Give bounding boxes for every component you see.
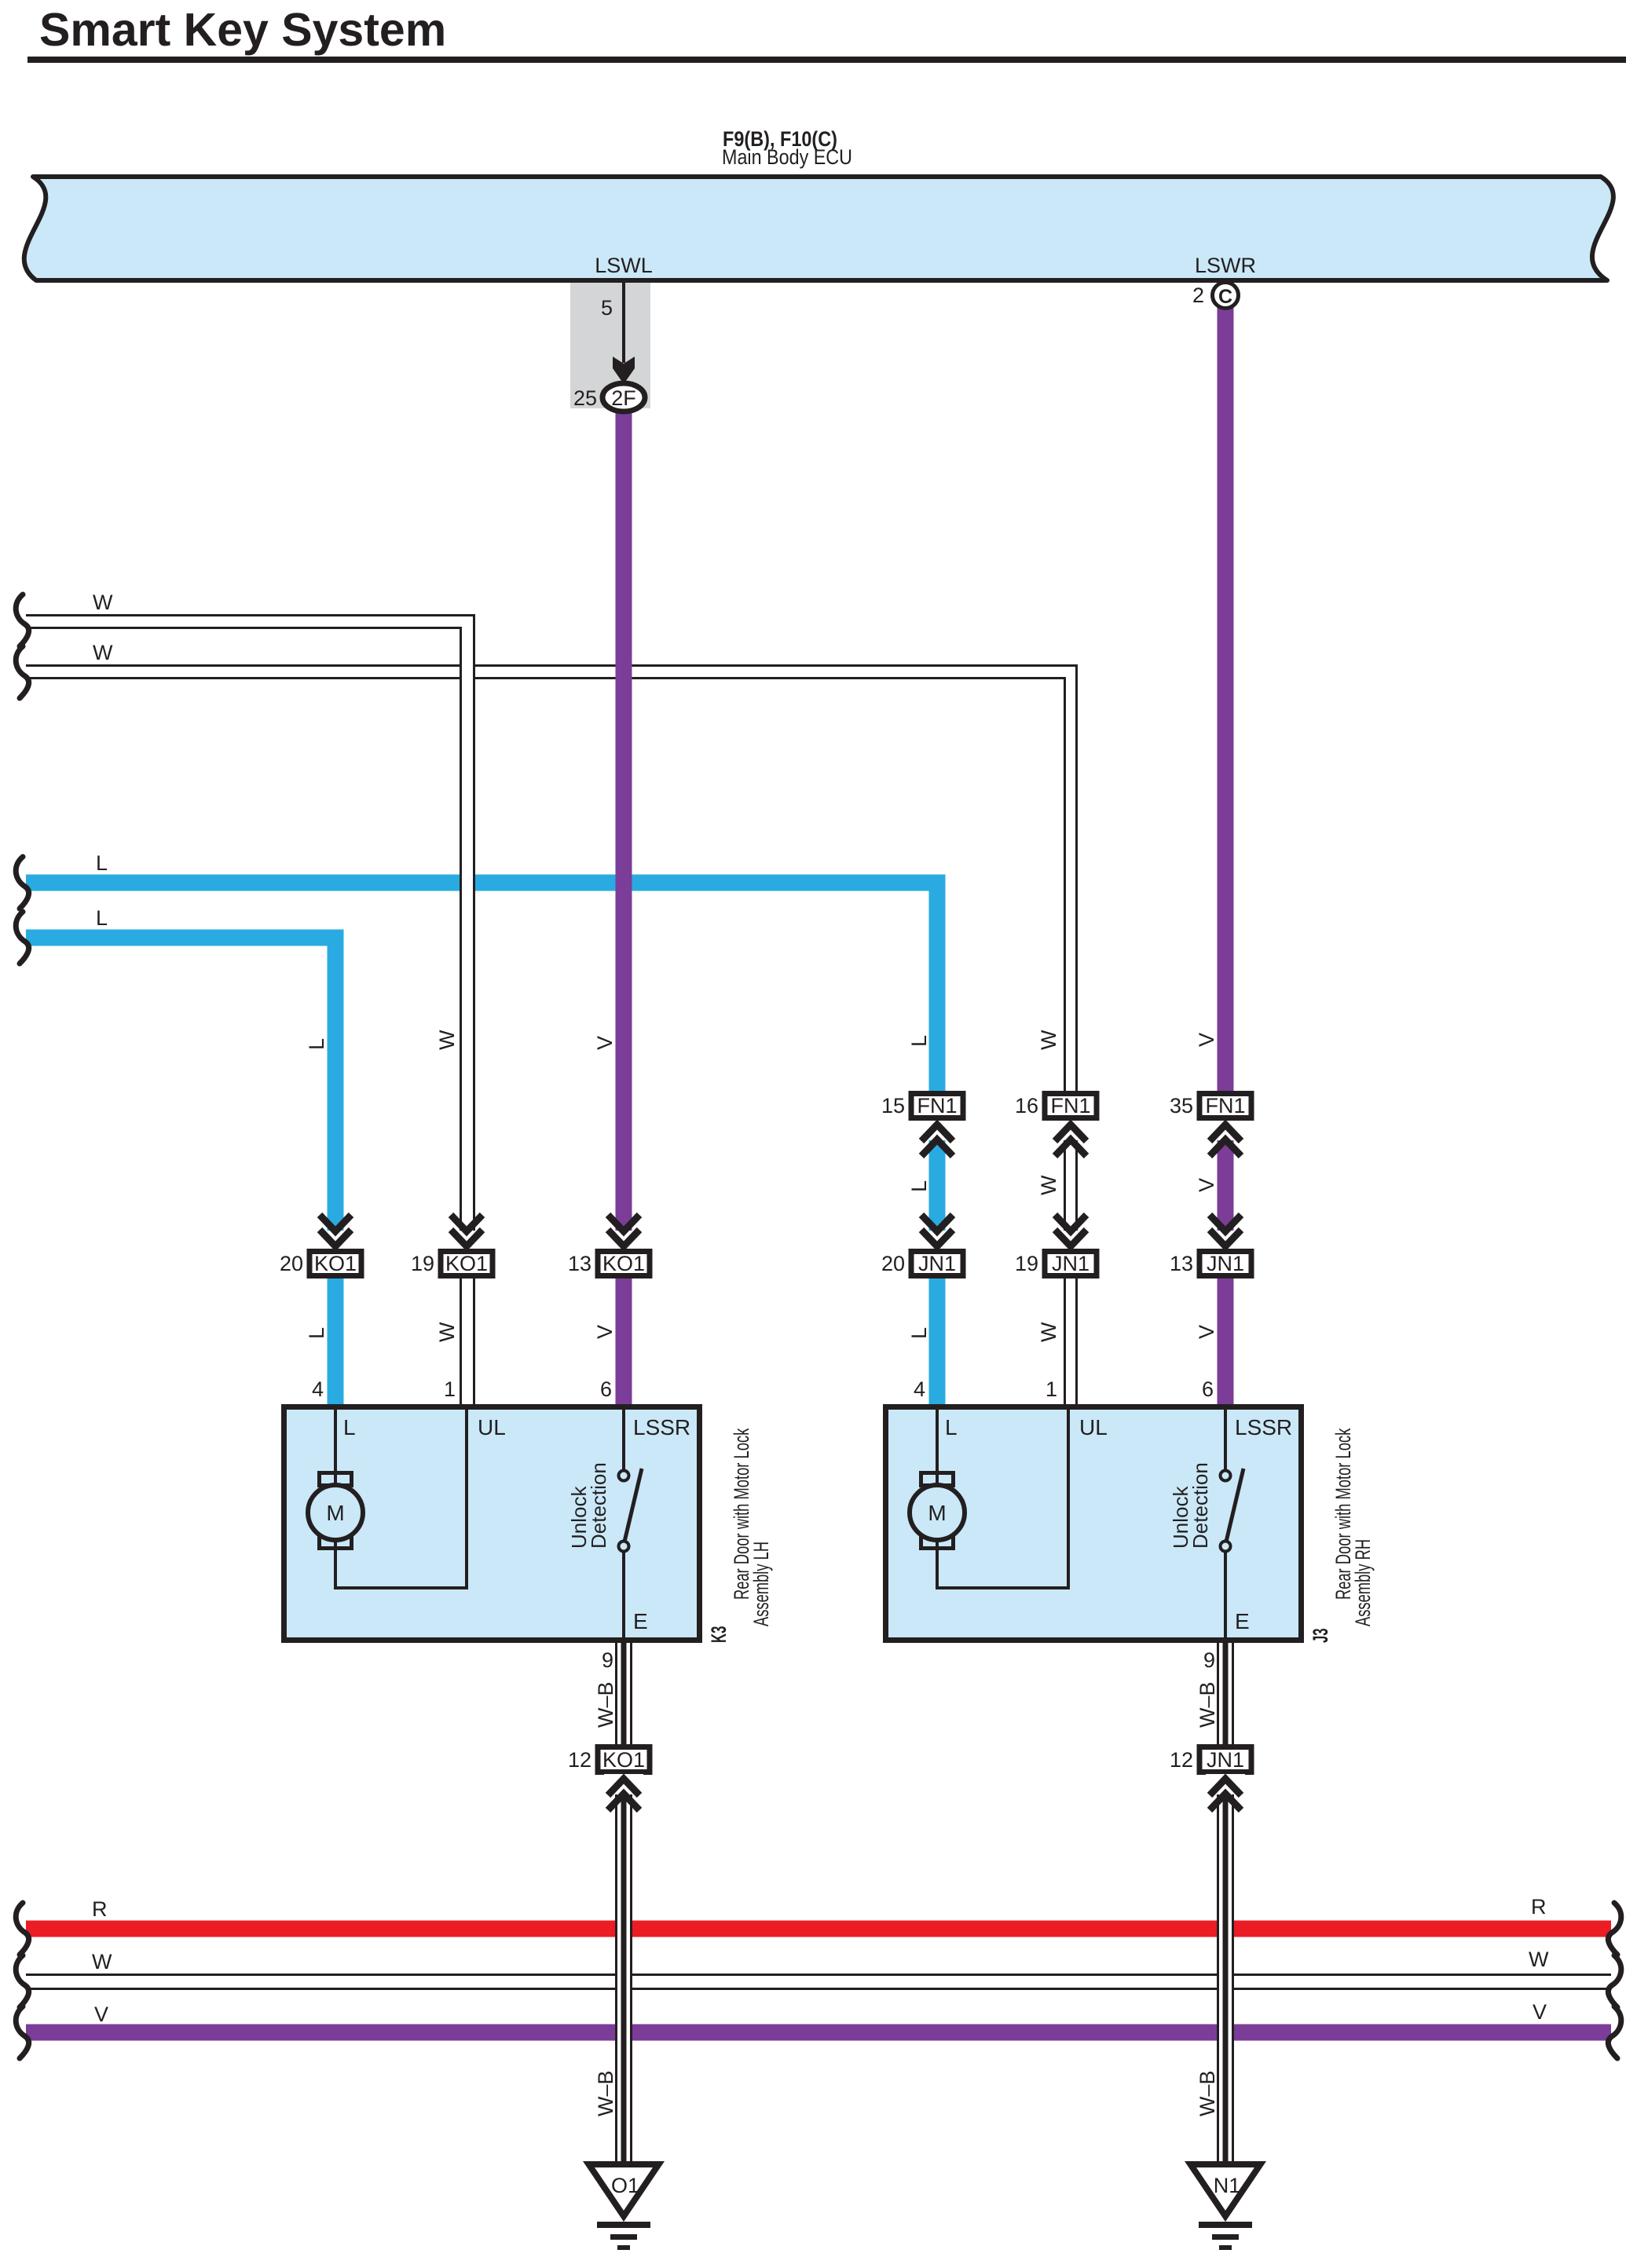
svg-text:19: 19 (411, 1252, 434, 1275)
break symbol wire L upper (16, 857, 28, 909)
motor M circle (K3) (308, 1485, 363, 1540)
ground O1 triangle (589, 2164, 659, 2216)
svg-text:J3: J3 (1309, 1628, 1332, 1643)
svg-text:KO1: KO1 (602, 1748, 645, 1772)
svg-text:LSSR: LSSR (1235, 1415, 1292, 1439)
svg-text:V: V (94, 2003, 108, 2026)
svg-text:6: 6 (600, 1377, 612, 1401)
lead from pin 6 (LSSR) to switch (J3) (1224, 1407, 1227, 1471)
break symbol bus V left (16, 2006, 28, 2058)
svg-text:L: L (96, 851, 108, 875)
svg-text:C: C (1218, 286, 1232, 308)
Main Body ECU band (component bus bar) (24, 177, 1613, 280)
svg-text:LSWL: LSWL (595, 254, 653, 277)
break symbol bus V right (1608, 2006, 1621, 2058)
chevron arrow below JN1 pin 12 (1206, 1774, 1245, 1794)
svg-text:JN1: JN1 (1052, 1252, 1090, 1275)
svg-text:1: 1 (1046, 1377, 1057, 1401)
lead from pin 6 (LSSR) to switch (K3) (622, 1407, 625, 1471)
svg-text:5: 5 (601, 296, 613, 320)
junction wire to UL line (K3) (335, 1586, 467, 1589)
connector JN1 pin 12 (1199, 1747, 1251, 1772)
svg-text:13: 13 (568, 1252, 591, 1275)
connector FN1 pin 16 (1045, 1094, 1097, 1118)
svg-text:L: L (96, 906, 108, 930)
connector JN1 pin 13 (1199, 1252, 1251, 1276)
connector KO1 pin 19 (441, 1252, 493, 1276)
svg-text:FN1: FN1 (1050, 1094, 1090, 1118)
svg-text:V: V (593, 1036, 617, 1050)
lead from pin 4 to motor (K3) (334, 1407, 337, 1489)
svg-text:KO1: KO1 (602, 1252, 645, 1275)
svg-text:KO1: KO1 (445, 1252, 488, 1275)
svg-text:UL: UL (1079, 1415, 1108, 1439)
ground N1 triangle (1191, 2164, 1261, 2216)
chevron arrow below FN1 pin 16 (1051, 1121, 1090, 1140)
svg-text:E: E (1235, 1609, 1250, 1633)
svg-text:V: V (1195, 1325, 1218, 1339)
connector KO1 pin 20 (309, 1252, 361, 1276)
switch lower contact (J3) (1221, 1542, 1231, 1552)
chevron arrow above JN1 pin 20 (917, 1231, 957, 1249)
svg-text:W: W (93, 591, 113, 614)
switch blade (J3) (1226, 1469, 1243, 1542)
svg-text:19: 19 (1015, 1252, 1038, 1275)
break symbol wire W upper (16, 594, 28, 646)
svg-text:Assembly LH: Assembly LH (749, 1542, 772, 1626)
wire W (white): horizontal segment 2 (lower, goes to right door) (26, 664, 1078, 679)
svg-text:V: V (593, 1325, 617, 1339)
ground bars N1 (1199, 2222, 1252, 2228)
svg-text:KO1: KO1 (314, 1252, 357, 1275)
svg-text:W–B: W–B (594, 1681, 617, 1728)
ground bars O1 (597, 2222, 650, 2228)
chevron arrow above JN1 pin 13 (1206, 1231, 1245, 1249)
break symbol wire W lower (16, 646, 28, 698)
lead from switch to pin E (K3) (622, 1552, 625, 1640)
break symbol bus W right (1608, 1955, 1621, 2007)
svg-text:W–B: W–B (594, 2070, 617, 2116)
wire L (blue) horizontal 2 to rear door LH side (26, 938, 335, 1407)
connector FN1 pin 15 (911, 1094, 963, 1118)
svg-text:2: 2 (1192, 283, 1204, 307)
svg-text:Main Body ECU: Main Body ECU (722, 145, 852, 169)
svg-text:UL: UL (478, 1415, 506, 1439)
connector JN1 pin 19 (1045, 1252, 1097, 1276)
motor M circle (J3) (910, 1485, 965, 1540)
chevron arrow above KO1 pin 19 (447, 1231, 486, 1249)
svg-text:16: 16 (1015, 1094, 1038, 1118)
svg-text:W: W (1037, 1030, 1060, 1050)
chevron arrow below FN1 pin 35 (1206, 1121, 1245, 1140)
svg-text:Smart Key System: Smart Key System (39, 4, 446, 56)
svg-text:L: L (907, 1180, 931, 1192)
connector KO1 pin 13 (598, 1252, 650, 1276)
svg-text:K3: K3 (707, 1626, 731, 1643)
svg-text:M: M (326, 1501, 344, 1525)
svg-text:N1: N1 (1214, 2174, 1241, 2197)
svg-text:15: 15 (881, 1094, 905, 1118)
break symbol wire L lower (16, 912, 28, 964)
chevron arrow below KO1 pin 12 (604, 1774, 643, 1794)
svg-text:25: 25 (573, 386, 597, 410)
wire L (blue) horizontal 1 to rear door RH side (26, 883, 937, 1407)
wire W (white) horizontal bus (26, 1974, 1611, 1990)
title underline rule (27, 57, 1626, 63)
svg-text:Detection: Detection (587, 1462, 610, 1549)
junction wire to UL line (J3) (937, 1586, 1068, 1589)
svg-text:13: 13 (1170, 1252, 1193, 1275)
svg-text:35: 35 (1170, 1094, 1193, 1118)
svg-text:4: 4 (312, 1377, 324, 1401)
svg-text:JN1: JN1 (1207, 1748, 1244, 1772)
switch upper contact (J3) (1221, 1471, 1231, 1481)
svg-text:W: W (93, 641, 113, 664)
component box K3: Rear Door with Motor Lock Assembly (284, 1407, 700, 1641)
wire W vertical segment down to FN1 pin16 / JN1 / door RH pin1 (1066, 667, 1075, 1407)
svg-text:Assembly RH: Assembly RH (1350, 1539, 1374, 1626)
connector JN1 pin 20 (911, 1252, 963, 1276)
svg-text:W: W (435, 1322, 459, 1342)
arrow into splice 2F (613, 357, 635, 384)
wire V (violet) horizontal bus (26, 2025, 1611, 2041)
motor upper terminal tab (J3) (921, 1473, 954, 1486)
wire W vertical segment down to KO1 pin19 / door LH pin1 (462, 616, 473, 1407)
lead from motor to junction (K3) (334, 1538, 337, 1589)
svg-text:6: 6 (1202, 1377, 1214, 1401)
svg-text:W–B: W–B (1196, 1681, 1219, 1728)
wire V (violet) LSWR from connector C down to door RH pin6 (1218, 306, 1234, 1407)
motor upper terminal tab (K3) (320, 1473, 352, 1486)
lead from pin 1 (UL) down (J3) (1067, 1407, 1070, 1589)
svg-text:L: L (907, 1327, 931, 1339)
svg-text:LSWR: LSWR (1195, 254, 1256, 277)
lead from motor to junction (J3) (936, 1538, 939, 1589)
svg-text:2F: 2F (611, 386, 636, 410)
svg-text:R: R (92, 1897, 108, 1921)
svg-text:1: 1 (444, 1377, 456, 1401)
grey shading behind 2F connector (570, 283, 650, 408)
break symbol bus R right (1608, 1903, 1621, 1955)
svg-text:9: 9 (1203, 1648, 1215, 1672)
svg-text:R: R (1531, 1895, 1547, 1919)
svg-text:L: L (907, 1035, 931, 1047)
component box J3: Rear Door with Motor Lock Assembly (886, 1407, 1302, 1641)
switch upper contact (K3) (619, 1471, 629, 1481)
svg-text:JN1: JN1 (918, 1252, 956, 1275)
svg-text:L: L (305, 1327, 328, 1339)
chevron arrow above KO1 pin 13 (604, 1231, 643, 1249)
svg-text:20: 20 (881, 1252, 905, 1275)
connector KO1 pin 12 (598, 1747, 650, 1772)
svg-text:O1: O1 (611, 2174, 639, 2197)
svg-text:LSSR: LSSR (633, 1415, 690, 1439)
wire V (violet) LSWL from splice 2F down to door LH pin6 (616, 410, 632, 1407)
svg-text:12: 12 (568, 1748, 591, 1772)
svg-text:V: V (1195, 1033, 1218, 1047)
svg-text:W: W (1037, 1322, 1060, 1342)
wire W-B from door LH pin E/9 to ground O1 (616, 1643, 632, 2164)
LSWL pin 5 lead line (622, 281, 625, 363)
lead from pin 4 to motor (J3) (936, 1407, 939, 1489)
svg-text:JN1: JN1 (1207, 1252, 1244, 1275)
svg-text:V: V (1195, 1178, 1218, 1192)
svg-text:9: 9 (602, 1648, 613, 1672)
svg-text:Detection: Detection (1188, 1462, 1212, 1549)
wire W-B from door RH pin E/9 to ground N1 (1218, 1643, 1233, 2164)
switch lower contact (K3) (619, 1542, 629, 1552)
svg-text:FN1: FN1 (917, 1094, 957, 1118)
svg-text:12: 12 (1170, 1748, 1193, 1772)
wire W (white) from ECU area: horizontal segment 1 (26, 614, 475, 629)
svg-text:20: 20 (280, 1252, 303, 1275)
break symbol bus R left (16, 1903, 28, 1955)
motor lower terminal tab (K3) (320, 1536, 352, 1549)
splice symbol 2F oval (602, 383, 645, 412)
svg-text:W: W (1037, 1175, 1060, 1195)
chevron arrow above JN1 pin 19 (1051, 1231, 1090, 1249)
svg-text:W: W (92, 1950, 112, 1974)
svg-text:M: M (928, 1501, 946, 1525)
svg-text:V: V (1533, 2000, 1547, 2024)
lead from switch to pin E (J3) (1224, 1552, 1227, 1640)
wire R (red) horizontal bus (26, 1921, 1611, 1937)
lead from pin 1 (UL) down (K3) (465, 1407, 468, 1589)
svg-text:L: L (343, 1415, 356, 1439)
chevron arrow below FN1 pin 15 (917, 1121, 957, 1140)
svg-text:L: L (945, 1415, 958, 1439)
connector FN1 pin 35 (1199, 1094, 1251, 1118)
svg-text:W: W (435, 1030, 459, 1050)
svg-text:W–B: W–B (1196, 2070, 1219, 2116)
LSWR pin 2 connector C circle (1213, 283, 1239, 309)
break symbol bus W left (16, 1955, 28, 2007)
chevron arrow above KO1 pin 20 (316, 1231, 355, 1249)
switch blade (K3) (624, 1469, 642, 1542)
svg-text:FN1: FN1 (1205, 1094, 1245, 1118)
svg-text:4: 4 (914, 1377, 925, 1401)
motor lower terminal tab (J3) (921, 1536, 954, 1549)
svg-text:L: L (305, 1038, 328, 1050)
svg-text:E: E (633, 1609, 648, 1633)
svg-text:W: W (1529, 1948, 1549, 1971)
